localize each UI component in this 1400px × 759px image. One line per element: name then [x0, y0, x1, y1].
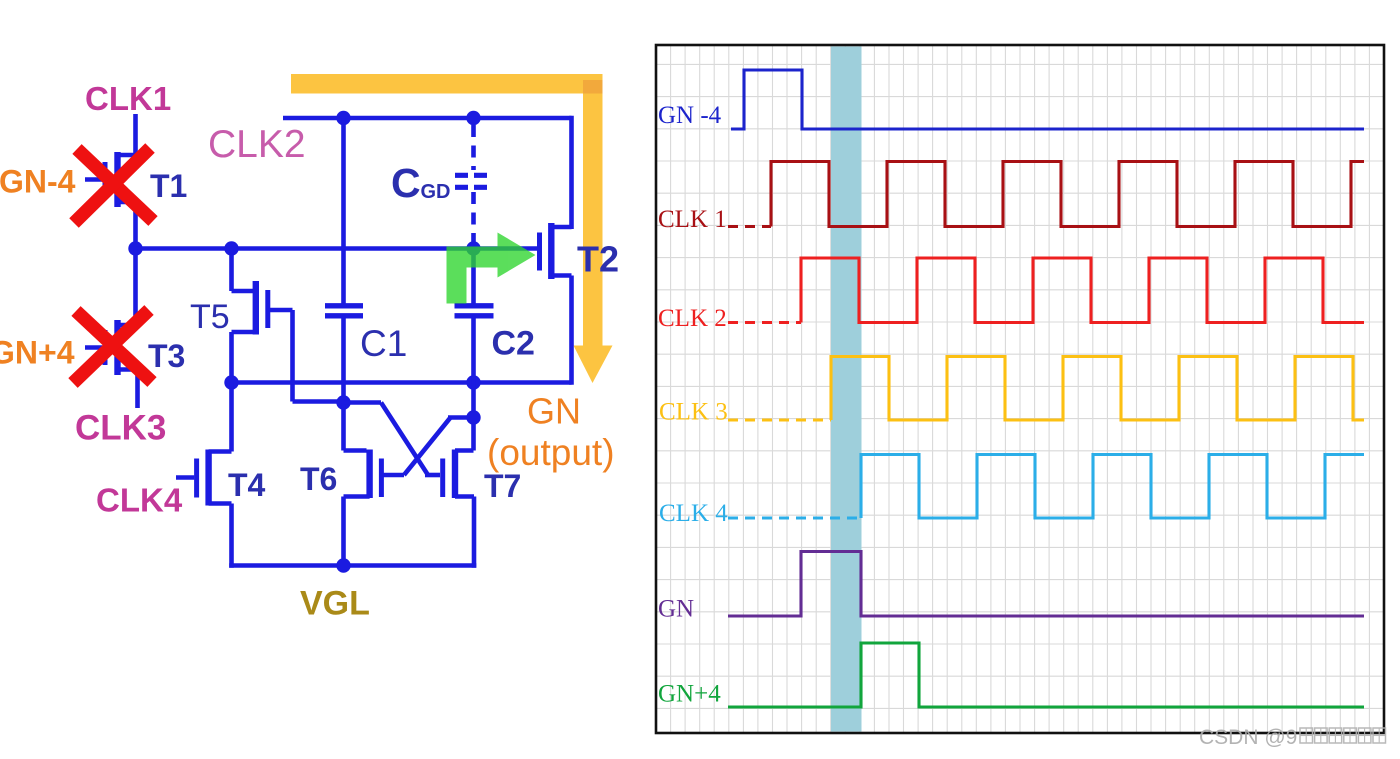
svg-text:CLK4: CLK4: [96, 482, 183, 519]
svg-text:T1: T1: [150, 168, 187, 204]
signal GN-4 trace: [731, 70, 1364, 129]
signal CLK1 dashed lead-in: [728, 225, 771, 228]
wire VGL rail: [229, 563, 476, 568]
transistor T3: [85, 249, 138, 409]
svg-text:T7: T7: [484, 468, 521, 504]
svg-text:CLK 3: CLK 3: [659, 399, 728, 426]
node gate-row / C2 / CGD junction: [466, 241, 480, 255]
node A (C1/T5 gate/T6 drain): [336, 395, 350, 409]
green arrow into T2 gate: [447, 233, 536, 304]
node CLK2/C1 junction: [336, 111, 350, 125]
svg-text:(output): (output): [487, 432, 615, 473]
wire CLK2 rail (top horizontal): [283, 116, 572, 121]
svg-text:CSDN @9: CSDN @9: [1199, 726, 1297, 749]
yellow feedback arrow: [291, 74, 613, 383]
transistor T5: [232, 249, 342, 402]
svg-text:CLK1: CLK1: [85, 80, 171, 117]
svg-text:GN-4: GN-4: [0, 164, 76, 200]
capacitor C1: [325, 118, 363, 400]
label CGD: [391, 160, 451, 206]
svg-text:C: C: [391, 160, 421, 206]
capacitor C2: [455, 249, 494, 383]
svg-text:GD: GD: [421, 181, 451, 203]
label GN (output): [487, 391, 615, 474]
signal CLK2 trace: [801, 258, 1364, 323]
svg-text:T2: T2: [577, 239, 619, 280]
svg-text:CLK 2: CLK 2: [658, 305, 727, 332]
timing panel background: [656, 45, 1384, 733]
svg-text:CLK 1: CLK 1: [658, 206, 727, 233]
signal CLK3 trace: [831, 357, 1364, 421]
panel border: [656, 45, 1384, 733]
svg-text:CLK2: CLK2: [208, 123, 306, 166]
node VGL center junction: [336, 558, 350, 572]
signal GN+4 trace: [728, 643, 1364, 707]
wire GN output rail: [232, 380, 572, 385]
svg-text:VGL: VGL: [300, 585, 370, 623]
svg-text:T6: T6: [300, 461, 337, 497]
node B (T7 drain / T6 gate): [466, 410, 480, 424]
svg-text:GN -4: GN -4: [658, 102, 722, 129]
node Q (T1/T3 junction): [128, 241, 142, 255]
wire CLK1 lead to T1 drain: [133, 114, 138, 157]
transistor T6: [344, 403, 474, 566]
svg-text:GN+4: GN+4: [658, 681, 721, 708]
svg-text:CLK3: CLK3: [75, 409, 166, 448]
transistor T7: [344, 383, 475, 568]
svg-text:T5: T5: [190, 298, 230, 336]
transistor T4: [176, 383, 232, 568]
signal CLK4 trace: [861, 455, 1364, 519]
signal CLK1 trace: [771, 162, 1364, 227]
capacitor CGD (dashed): [455, 125, 492, 244]
node T5 drain tap: [224, 241, 238, 255]
signal CLK2 dashed lead-in: [728, 321, 801, 324]
svg-text:GN+4: GN+4: [0, 335, 75, 371]
red X over T1: [74, 148, 153, 223]
node C2 / T7 drain on GN rail: [466, 375, 480, 389]
node CLK2/CGD junction: [466, 111, 480, 125]
svg-text:T4: T4: [228, 467, 266, 503]
svg-text:GN: GN: [658, 596, 694, 623]
highlight band: [831, 47, 862, 732]
wire T2 source vertical: [569, 276, 574, 385]
transistor T2: [540, 223, 572, 279]
svg-text:C2: C2: [492, 325, 535, 363]
signal CLK4 dashed lead-in: [728, 516, 861, 519]
signal GN trace: [728, 552, 1364, 617]
transistor T1: [85, 152, 136, 250]
wire T2 drain vertical: [569, 116, 574, 229]
node T4 drain / GN rail: [224, 375, 238, 389]
svg-text:CLK 4: CLK 4: [659, 500, 728, 527]
svg-text:T3: T3: [148, 338, 185, 374]
red X over T3: [73, 310, 152, 383]
svg-text:GN: GN: [527, 391, 581, 432]
wire gate row (Q node to T2 gate): [136, 246, 538, 251]
signal CLK3 dashed lead-in: [728, 418, 831, 421]
watermark: [1199, 726, 1386, 749]
svg-text:C1: C1: [360, 323, 407, 364]
